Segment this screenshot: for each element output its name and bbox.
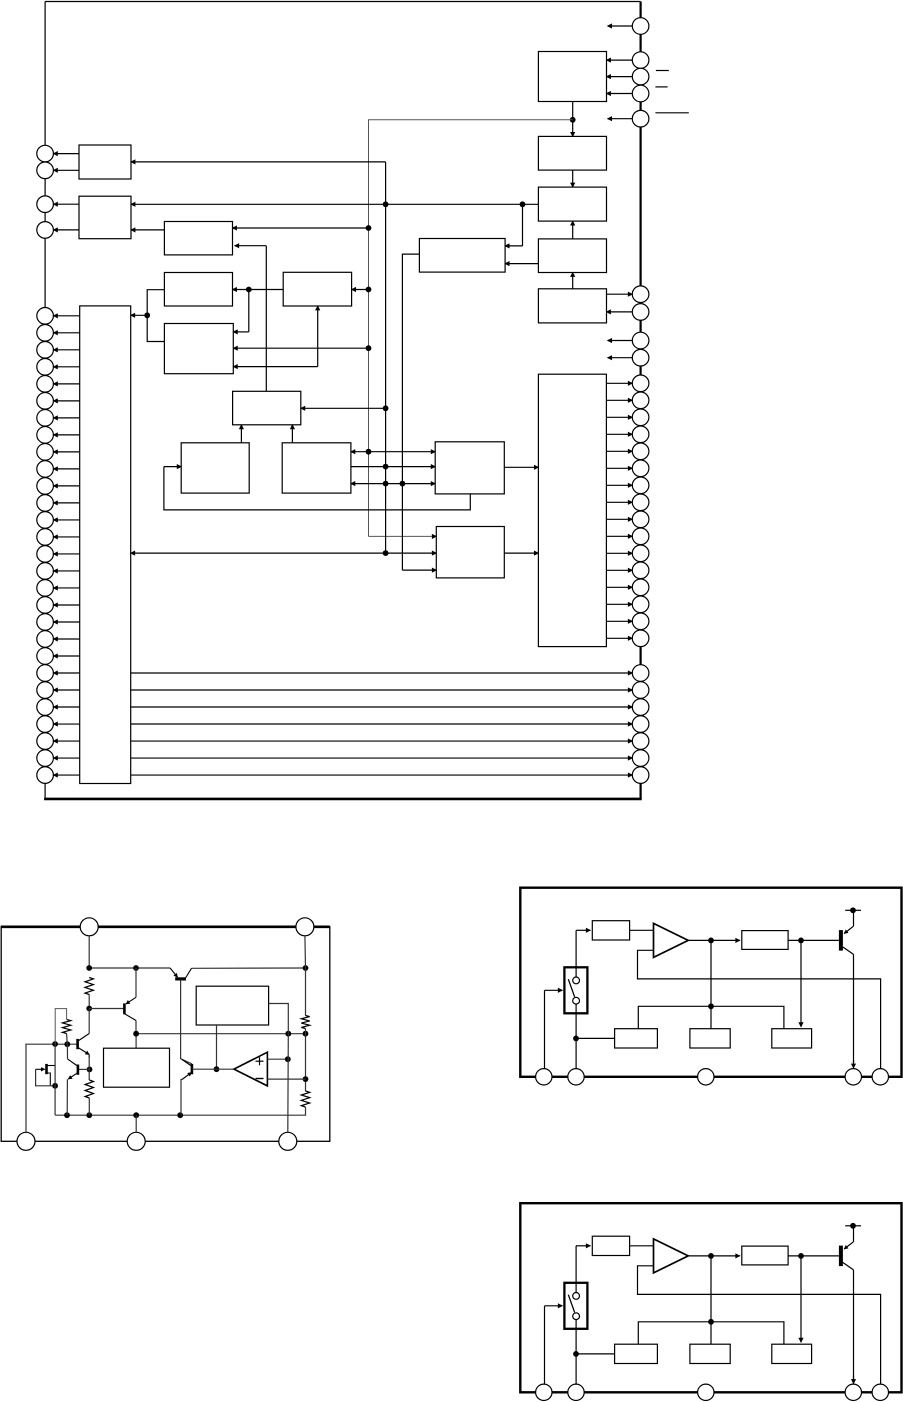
stub arrow pin R1 (608, 25, 633, 27)
branch to block I (301, 405, 389, 411)
wire mid rail (133, 1021, 308, 1049)
pin amp B-3 (698, 1384, 714, 1400)
base wire Q4 (89, 1008, 124, 1010)
wire pin R7 to B5 (607, 311, 633, 313)
pin R14 (632, 443, 649, 460)
pin L18 (37, 529, 54, 546)
amp A frame (520, 888, 901, 1077)
Q5 emitter column (181, 1080, 182, 1116)
pin R31 (632, 750, 649, 767)
block B5 (538, 289, 606, 323)
amp B frame (520, 1203, 901, 1392)
wire block F bottom to block H (233, 306, 317, 367)
pin S1-2 (296, 918, 314, 936)
pin R19 (632, 528, 649, 545)
wire B1 to B2 chain (570, 102, 576, 137)
amp A output wire (688, 938, 740, 944)
Q3 base line (181, 980, 192, 1064)
pin amp B-4 (845, 1384, 861, 1400)
amp B B1 left wire (576, 1353, 615, 1355)
pin R1 (632, 18, 649, 35)
stub arrow pin R5 (608, 118, 633, 120)
Q1 collector wire (88, 1009, 90, 1034)
stub arrow pin R8 (608, 340, 633, 342)
wire B5 to B4 (572, 273, 574, 289)
pin L19 (37, 546, 54, 563)
pin L22 (37, 597, 54, 614)
amp A transistor Q1 pnp (839, 926, 854, 954)
block D (419, 239, 505, 273)
Q4 collector riser (135, 968, 137, 997)
block H (164, 324, 233, 374)
pin L9 (37, 376, 54, 393)
wire B5 to pin R6 (607, 293, 633, 295)
amp B block B2 (690, 1344, 730, 1363)
resistor R1 (85, 978, 93, 995)
left column (54, 1044, 56, 1115)
block I (233, 391, 301, 425)
amp A op-amp (654, 923, 689, 957)
pin L16 (37, 495, 54, 512)
pin L11 (37, 410, 54, 427)
pin R28 (632, 699, 649, 716)
wire R3 to rail (88, 1098, 90, 1115)
branch to block H upper (233, 290, 249, 332)
amp A wire to op-amp (630, 929, 654, 931)
amp A wire F1 to Q1 (788, 938, 839, 944)
pin L24 (37, 631, 54, 648)
pin S1-1 (80, 918, 98, 936)
op-amp U1 (234, 1052, 268, 1086)
pin L7 (37, 342, 54, 359)
block C (164, 222, 232, 255)
gray distribution net (369, 120, 573, 537)
T1 bottom wire (214, 1025, 220, 1072)
pin R15 (632, 460, 649, 477)
feedback wire block L to block J (164, 467, 470, 510)
amp A block F0 (592, 921, 629, 940)
pin S1-5 (279, 1132, 297, 1150)
pin R25 (632, 630, 649, 647)
arrows block B to pins (53, 204, 79, 230)
pin L3 (37, 196, 54, 213)
right rail (303, 936, 309, 1091)
branch to block D (505, 204, 522, 246)
block T1 (196, 986, 268, 1025)
pin R7 (632, 304, 649, 321)
amp A Q1 collector wire (853, 954, 855, 1068)
pin L6 (37, 325, 54, 342)
amp B block B1 (615, 1344, 658, 1363)
connector block E to block H left (131, 290, 165, 342)
pin R8 (632, 332, 649, 349)
amp B wire F1 to Q1 (788, 1253, 839, 1259)
pin L17 (37, 512, 54, 529)
wire row K L 3 (351, 481, 435, 487)
amp A block F1 (742, 931, 788, 950)
branch to block F (352, 287, 372, 293)
transistor Q2 npn (68, 1059, 93, 1079)
pin L4 (37, 222, 54, 239)
top rail (86, 936, 308, 971)
transistor Q5 (182, 1060, 192, 1080)
pin L1 (37, 145, 54, 162)
resistor R4 (301, 1016, 309, 1029)
amp B Q1 collector wire (853, 1270, 855, 1384)
pin R5 (632, 110, 649, 127)
amp B switch bottom wire (573, 1320, 579, 1385)
external dash marks (655, 71, 688, 113)
pin L30 (37, 733, 54, 750)
block P (436, 527, 504, 578)
block B4 (538, 239, 606, 273)
vertical distribution net to block A (131, 162, 386, 553)
U1 plus input wire (267, 1056, 290, 1062)
amp A branch to B3 (800, 940, 802, 1026)
block E (164, 273, 232, 307)
pin R24 (632, 613, 649, 630)
pin L26 (37, 665, 54, 682)
wire R5 to rail (55, 1107, 305, 1115)
rail dots (64, 1112, 183, 1118)
amp B wire to op-amp (630, 1245, 654, 1247)
wire row K L 1 (351, 449, 435, 455)
pin R23 (632, 596, 649, 613)
amp B input wire (545, 1306, 563, 1384)
regulator schematic frame (1, 927, 330, 1142)
pin L27 (37, 682, 54, 699)
wire to left block and block P (131, 550, 437, 556)
resistor R2 (62, 1019, 70, 1033)
stub arrow pin R9 (608, 357, 633, 359)
wire B4 to B3 (572, 221, 574, 239)
amp A branch to B2 (708, 940, 714, 1028)
pin L15 (37, 478, 54, 495)
pin L20 (37, 563, 54, 580)
amp B bias wire (638, 1322, 784, 1344)
pin L25 (37, 648, 54, 665)
pin amp A-4 (845, 1069, 861, 1085)
pin L8 (37, 359, 54, 376)
pin R6 (632, 286, 649, 303)
pin L2 (37, 162, 54, 179)
R2 top loop (55, 1009, 66, 1044)
net from block D (402, 254, 436, 570)
pin R12 (632, 409, 649, 426)
pin R32 (632, 767, 649, 784)
bus wires to right pins (131, 673, 633, 775)
pin S1-5 column (287, 1034, 290, 1133)
pin R29 (632, 716, 649, 733)
amp B block B3 (772, 1344, 812, 1363)
amp B branch to B3 (800, 1256, 802, 1342)
T1 right stub (269, 1004, 289, 1034)
amp B block F0 (592, 1236, 629, 1255)
resistor R5 (301, 1091, 309, 1107)
pin L29 (37, 716, 54, 733)
amp B branch to B2 (708, 1256, 714, 1344)
pin R26 (632, 665, 649, 682)
amp A block B2 (690, 1029, 730, 1048)
pin S1-4 riser (135, 1115, 137, 1132)
block L (435, 442, 504, 494)
arrows block A to pins (53, 154, 79, 171)
pin amp A-1 (536, 1069, 552, 1085)
pin R13 (632, 426, 649, 443)
amp A block B3 (772, 1029, 812, 1048)
wire B2 to B3 (572, 170, 574, 187)
pin R3 (632, 68, 649, 85)
pin amp A-5 (872, 1069, 888, 1085)
block K (282, 443, 351, 493)
pin amp B-2 (568, 1384, 584, 1400)
block T2 (104, 1048, 170, 1087)
resistor R3 (85, 1080, 93, 1098)
block A (79, 145, 131, 179)
pin R18 (632, 511, 649, 528)
block B2 (538, 136, 606, 170)
pin R9 (632, 349, 649, 366)
amp A block B1 (615, 1029, 658, 1048)
pin S1-3 wire (26, 1041, 78, 1132)
wires pins to block B1 (607, 60, 633, 93)
amp B op-amp (654, 1239, 689, 1273)
block BL (80, 306, 131, 784)
arrows right block to pins (606, 383, 632, 638)
wire B3 to block B (131, 201, 538, 207)
jfet Q6 (36, 1064, 56, 1086)
pin L31 (37, 750, 54, 767)
wire R1 to node (86, 995, 92, 1012)
pin S1-4 (127, 1132, 145, 1150)
transistor Q4 npn (124, 997, 136, 1020)
amp A supply stub (845, 907, 861, 926)
pin L10 (37, 393, 54, 410)
wire block J to block I (240, 425, 242, 443)
amp B transistor Q1 pnp (839, 1242, 854, 1270)
pin amp A-3 (698, 1069, 714, 1085)
pin R11 (632, 392, 649, 409)
amp A feedback net (638, 950, 881, 1068)
chip outer border (44, 2, 642, 799)
wire block L to block N (504, 466, 538, 468)
pin L28 (37, 699, 54, 716)
amp A input wire (545, 990, 563, 1068)
R2 bottom wire (66, 1034, 69, 1045)
amp B feedback net (638, 1266, 881, 1384)
arrows left block to pins (53, 316, 79, 775)
wire block C to block B (131, 229, 164, 231)
block B3 (538, 187, 606, 221)
U1 minus input wire (267, 1078, 305, 1080)
pin amp B-1 (536, 1384, 552, 1400)
pin L23 (37, 614, 54, 631)
amp B block F1 (742, 1246, 788, 1265)
amp B switch to filter wire (576, 1246, 590, 1293)
wire block C to block I top (235, 246, 267, 392)
transistor Q3 pnp (170, 968, 191, 979)
pin L32 (37, 767, 54, 784)
amp A switch SW (564, 967, 587, 1013)
block B (79, 196, 131, 239)
pin S1-3 (17, 1132, 35, 1150)
Q1 emitter wire (88, 1055, 90, 1059)
wire row K L 2 (351, 464, 435, 470)
wire block K to block I (291, 425, 293, 443)
amp A switch to filter wire (576, 930, 590, 977)
pin L12 (37, 427, 54, 444)
amp A B1 left wire (576, 1037, 615, 1039)
pin R17 (632, 494, 649, 511)
Q2 collector column (88, 1055, 90, 1081)
pin L14 (37, 461, 54, 478)
pin R22 (632, 579, 649, 596)
node column (66, 1044, 68, 1115)
jfet gate loop (36, 1069, 58, 1088)
amp B supply stub (845, 1223, 861, 1242)
wire block P to block N (504, 552, 538, 554)
pin L21 (37, 580, 54, 597)
amp B switch SW (564, 1283, 587, 1329)
pin R27 (632, 682, 649, 699)
block BN (538, 374, 606, 646)
pin L5 (37, 308, 54, 325)
amp A switch bottom wire (573, 1004, 579, 1069)
pin R2 (632, 52, 649, 69)
branch to block H (233, 345, 371, 351)
wire block F to block E (233, 287, 284, 293)
pin R4 (632, 85, 649, 102)
branch to block C (233, 225, 372, 231)
pin amp B-5 (872, 1384, 888, 1400)
block B1 (538, 52, 606, 102)
amp A bias wire (638, 1006, 784, 1028)
pin R20 (632, 545, 649, 562)
pin R16 (632, 477, 649, 494)
pin R21 (632, 562, 649, 579)
pin amp A-2 (568, 1069, 584, 1085)
pin R10 (632, 375, 649, 392)
block F (283, 272, 351, 306)
wire B4 to block D (505, 263, 538, 265)
Q5 base wire (192, 1068, 234, 1070)
pin R30 (632, 733, 649, 750)
transistor Q1 npn (78, 1034, 90, 1055)
amp B output wire (688, 1253, 740, 1259)
Q2 base wire (79, 1068, 90, 1070)
block J (181, 443, 249, 493)
pin L13 (37, 444, 54, 461)
